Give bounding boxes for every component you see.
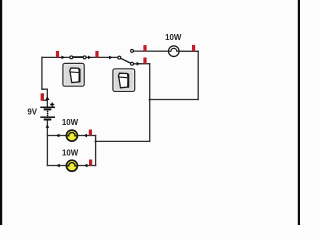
connector red bar branch 1 — [89, 130, 92, 136]
current arrow A1 right — [62, 56, 65, 60]
wire lamp branch 2 — [47, 165, 95, 167]
switch S1 contact circle right — [83, 56, 86, 59]
switch S1 rocker icon — [70, 68, 80, 83]
svg-text:10W: 10W — [62, 148, 79, 157]
wire top horizontal — [42, 56, 119, 58]
frame right edge — [298, 0, 300, 225]
battery B1 plate long bottom — [40, 116, 55, 118]
lamp L3 10W lit branch 2 — [66, 160, 77, 171]
wire lamp branch 1 — [47, 135, 95, 137]
switch S2 lower throw circle — [131, 62, 134, 65]
current arrow A6 left — [84, 134, 87, 138]
lamp L2 10W lit branch 1 — [66, 130, 77, 141]
wire battery bottom vertical — [46, 120, 48, 165]
switch S1 pivot circle left — [70, 56, 73, 59]
lamp L1 10W unlit top — [169, 46, 180, 57]
battery B1 plus sign — [50, 103, 54, 107]
switch S2 rocker icon — [118, 73, 128, 88]
svg-text:10W: 10W — [62, 118, 79, 127]
switch S2 common circle — [118, 56, 121, 59]
wire battery connector stub — [44, 99, 48, 101]
switch S1 body box — [63, 63, 84, 86]
battery B1 plate short bottom — [44, 119, 52, 121]
current arrow A4 right — [137, 62, 140, 66]
node junction link/pair — [95, 140, 97, 142]
frame left edge — [0, 0, 2, 225]
current arrow A9 up battery top — [45, 96, 49, 100]
current arrow A3 right — [109, 56, 112, 60]
wire left vertical — [41, 57, 43, 89]
connector red bar branch 2 — [89, 160, 92, 166]
wire parallel pair right vertical — [95, 136, 97, 166]
connector red bar after top lamp — [192, 45, 195, 52]
node junction changeover branch — [149, 98, 151, 100]
wire changeover lower throw — [134, 63, 150, 65]
connector red bar top wire left — [56, 51, 59, 57]
svg-text:10W: 10W — [165, 33, 182, 42]
connector red bar battery terminal — [41, 93, 44, 101]
svg-text:9V: 9V — [27, 108, 37, 117]
switch S2 body box — [113, 69, 135, 92]
wire changeover lower vertical — [149, 64, 151, 142]
current arrow A10 up below battery — [46, 124, 50, 127]
battery B1 plate long top — [40, 106, 55, 108]
wire jog to battery top — [42, 89, 47, 107]
current arrow A8 left — [84, 164, 87, 168]
battery B1 dots — [47, 111, 49, 113]
connector red bar top wire right — [95, 51, 98, 58]
connector red bar lower throw — [143, 58, 146, 64]
wire middle horizontal — [150, 99, 199, 101]
switch S2 upper throw circle — [131, 49, 134, 52]
switch S2 changeover lever — [119, 58, 132, 64]
battery B1 plate short top — [44, 108, 52, 110]
wire changeover upper throw to lamp — [134, 50, 199, 52]
wire top lamp right vertical — [197, 51, 199, 99]
switch S1 closed contact bar — [71, 56, 84, 58]
current arrow A2 right — [88, 56, 91, 60]
wire link horizontal to switch branch — [96, 140, 150, 142]
connector red bar upper throw — [143, 45, 146, 51]
current arrow A5 left — [56, 134, 59, 138]
current arrow A7 left — [56, 164, 59, 168]
